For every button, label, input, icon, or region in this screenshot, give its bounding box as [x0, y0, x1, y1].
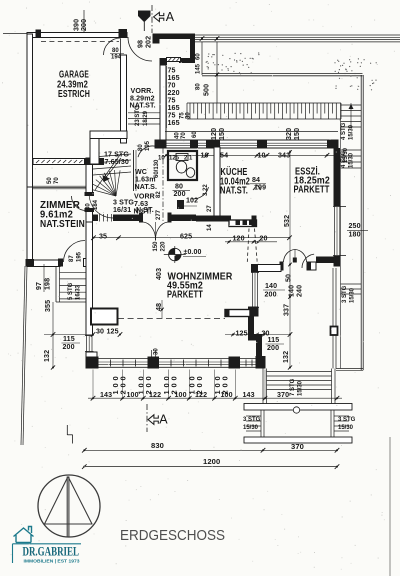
svg-text:500: 500	[203, 84, 211, 96]
lower side steps right	[334, 415, 349, 417]
hall west wall junction	[84, 158, 104, 165]
zimmer south door jamb left	[58, 259, 63, 267]
svg-text:125: 125	[236, 330, 248, 338]
svg-text:195: 195	[145, 140, 151, 151]
svg-text:830: 830	[151, 441, 164, 450]
entry wall stub left of sill	[160, 58, 168, 65]
south dimension line	[88, 397, 342, 399]
svg-text:17.65/30: 17.65/30	[101, 158, 129, 166]
dim column tick line	[166, 66, 168, 128]
east stairs second flight	[341, 149, 362, 151]
svg-text:N.ST.: N.ST.	[136, 206, 154, 214]
svg-text:180: 180	[349, 231, 361, 239]
living room north wall mid segment	[113, 215, 141, 222]
svg-text:320: 320	[285, 128, 293, 140]
south band pier 2	[148, 357, 160, 369]
svg-text:16/33: 16/33	[76, 284, 82, 300]
svg-text:30: 30	[96, 328, 104, 336]
svg-text:102: 102	[186, 197, 198, 205]
svg-text:150: 150	[218, 128, 226, 140]
svg-text:20: 20	[260, 235, 268, 243]
svg-text:15/30: 15/30	[350, 287, 356, 303]
svg-text:50: 50	[47, 177, 53, 184]
west dim line horizontal y334	[44, 334, 93, 336]
entry door sill	[167, 58, 181, 62]
double door jamb left	[139, 213, 143, 223]
svg-text:198: 198	[44, 278, 52, 290]
svg-text:145: 145	[196, 63, 202, 74]
svg-text:277: 277	[156, 209, 162, 220]
living east wall lower	[256, 341, 262, 359]
svg-text:35: 35	[99, 233, 107, 241]
kitchen door swing dashed lines	[247, 229, 249, 263]
east garden wall double line	[332, 268, 334, 369]
garage north wall pier left	[36, 30, 42, 38]
svg-text:60: 60	[192, 131, 198, 138]
vorraum door arc	[138, 146, 156, 157]
dining door arc	[302, 254, 314, 268]
svg-text:15/30: 15/30	[338, 425, 354, 431]
svg-text:132: 132	[282, 351, 290, 363]
svg-text:143: 143	[100, 391, 112, 399]
svg-text:202: 202	[145, 36, 153, 48]
terrace bottom bar	[244, 437, 352, 443]
svg-text:23 STG: 23 STG	[135, 105, 141, 126]
south window band	[93, 357, 265, 359]
wc cistern	[176, 154, 188, 161]
living room east wall upper	[252, 265, 259, 273]
hatched strip north terrace	[187, 103, 341, 119]
svg-text:A: A	[159, 413, 168, 427]
east terrace inner line	[340, 103, 342, 369]
svg-text:200: 200	[63, 343, 75, 351]
zimmer east wall lower	[86, 211, 93, 222]
svg-text:NAT.ST.: NAT.ST.	[220, 186, 248, 197]
svg-text:ESTRICH: ESTRICH	[58, 89, 90, 100]
zimmer east wall / hall west wall	[86, 158, 93, 194]
living room south-west corner	[86, 352, 97, 368]
svg-text:IMMOBILIEN | EST 1973: IMMOBILIEN | EST 1973	[24, 559, 80, 565]
svg-text:165: 165	[168, 119, 180, 127]
dining south wall	[316, 257, 340, 264]
north wall pier 3 (kitchen/dining)	[257, 140, 267, 149]
svg-text:115: 115	[63, 335, 75, 343]
svg-text:98: 98	[137, 40, 145, 48]
zimmer door 87/195 arc	[64, 241, 86, 263]
wc west partition	[133, 150, 135, 191]
zimmer west wall	[27, 187, 33, 266]
short vertical x202	[201, 42, 203, 75]
svg-text:16/31: 16/31	[113, 206, 131, 214]
svg-text:ERDGESCHOSS: ERDGESCHOSS	[120, 527, 225, 544]
logo circle	[38, 475, 100, 537]
tick on street line x217	[215, 36, 220, 41]
landing circle marker	[293, 407, 299, 413]
double door arcs 150/220	[143, 222, 156, 241]
vorraum stair treads	[128, 112, 160, 114]
north wall pier 2a (wc east)	[190, 140, 198, 149]
west wall window	[86, 335, 88, 352]
french door arcs	[284, 250, 296, 263]
scan speckle noise	[94, 311, 97, 314]
north wall pier 2 (kitchen west)	[206, 140, 220, 149]
dining south wall inner stub	[311, 262, 317, 270]
recess wall corner	[248, 307, 259, 317]
svg-text:3 STG: 3 STG	[342, 285, 348, 303]
section line middle (dash-dot)	[162, 148, 164, 222]
zimmer south door jamb right	[84, 259, 89, 267]
dim line west x44	[43, 264, 45, 292]
svg-text:403: 403	[155, 268, 163, 280]
svg-text:40: 40	[175, 132, 181, 139]
svg-text:70: 70	[54, 177, 60, 184]
north wall pier 1 (vorraum corner)	[155, 140, 167, 149]
section arrow filled top	[138, 11, 151, 23]
east garden wall post	[331, 327, 338, 336]
svg-text:7 STG: 7 STG	[290, 378, 296, 396]
kitchen wall end post	[252, 216, 257, 228]
north window sill line	[165, 131, 338, 133]
svg-text:200: 200	[174, 190, 186, 198]
svg-text:140: 140	[288, 285, 296, 297]
garage side door arc 80/194	[104, 38, 121, 55]
svg-text:125: 125	[107, 328, 119, 336]
svg-text:100: 100	[221, 391, 233, 399]
porch bottom wall	[179, 58, 190, 63]
svg-text:150: 150	[153, 241, 159, 252]
terrace stair rails	[262, 369, 264, 404]
terrace stair treads	[267, 371, 332, 373]
section arrow open top	[154, 12, 164, 21]
pier2 stub above	[151, 350, 153, 357]
svg-text:14: 14	[207, 224, 213, 231]
north street multi-line	[195, 34, 400, 36]
vorraum east wall	[160, 65, 166, 148]
zimmer door arc	[72, 196, 87, 211]
svg-text:30: 30	[186, 112, 192, 119]
svg-text:27: 27	[207, 205, 213, 212]
west exterior stair treads	[60, 271, 87, 273]
svg-text:370: 370	[277, 391, 289, 399]
terrace landing bar	[244, 404, 352, 411]
svg-text:97: 97	[35, 282, 43, 290]
kitchen wall heater marks	[236, 220, 241, 226]
svg-text:70: 70	[181, 132, 187, 139]
living east wall mid	[248, 317, 254, 337]
french door jamb left	[280, 262, 284, 271]
svg-text:A: A	[166, 10, 175, 24]
svg-text:120: 120	[210, 128, 218, 140]
garage west wall	[27, 34, 33, 187]
entry door arc 98/202	[128, 37, 152, 61]
porch left corner	[153, 34, 160, 44]
dining east window	[334, 206, 336, 256]
garage north wall pier right	[119, 29, 128, 37]
svg-text:NAT.STEIN: NAT.STEIN	[40, 219, 85, 230]
zimmer south wall west segment	[27, 260, 60, 267]
svg-text:195: 195	[77, 251, 83, 262]
svg-text:NAT.S.: NAT.S.	[135, 183, 158, 191]
west property line (slanted)	[21, 266, 25, 445]
wall between living and french doors	[252, 265, 282, 272]
elevation marker +-0.00	[169, 248, 181, 260]
svg-text:4 STG: 4 STG	[341, 122, 347, 140]
svg-text:60/130: 60/130	[154, 159, 160, 178]
north wall pier 4 (dining east corner)	[327, 140, 339, 149]
south band pier west corner	[86, 357, 99, 369]
double door jamb right	[168, 213, 172, 223]
porch top wall	[153, 34, 196, 40]
pillar 102 black post	[177, 200, 184, 209]
wc door arc	[192, 187, 209, 199]
living east window	[252, 272, 254, 308]
north wall band outline	[155, 140, 338, 148]
south dimension extension lines	[92, 370, 94, 399]
svg-text:60: 60	[196, 53, 202, 60]
east stairs mid flight	[341, 283, 362, 285]
east terrace bottom edge	[336, 368, 363, 370]
svg-text:150: 150	[293, 128, 301, 140]
logo triangle	[44, 477, 93, 525]
svg-text:PARKETT: PARKETT	[167, 290, 203, 301]
east dim vertical line	[289, 150, 291, 368]
porch right wall	[190, 39, 195, 63]
recess wall horizontal	[225, 310, 250, 317]
kitchen south wall lower step	[229, 220, 257, 227]
svg-text:15/30: 15/30	[298, 380, 304, 396]
living south-east corner	[256, 356, 266, 369]
south band mullions	[110, 360, 112, 367]
svg-text:±0.00: ±0.00	[184, 249, 202, 256]
dining east wall upper	[334, 148, 341, 206]
wc toilet bowl	[176, 161, 186, 173]
svg-text:250: 250	[349, 222, 361, 230]
svg-text:200: 200	[80, 19, 88, 31]
svg-text:143: 143	[243, 391, 255, 399]
svg-text:80: 80	[196, 83, 202, 90]
north boundary line left of garage	[3, 33, 30, 35]
svg-text:355: 355	[44, 300, 52, 312]
kitchen south wall upper	[196, 216, 231, 222]
svg-text:100: 100	[127, 391, 139, 399]
svg-text:199: 199	[254, 184, 266, 192]
garage east wall	[121, 55, 127, 143]
section line A top	[151, 5, 153, 33]
garage door sill hatched	[33, 159, 85, 165]
svg-text:120: 120	[233, 235, 245, 243]
svg-text:15/30: 15/30	[349, 152, 355, 168]
3 step treads in wall opening	[99, 214, 101, 222]
svg-text:82: 82	[156, 191, 162, 198]
garage north wall	[27, 33, 127, 38]
stipple dots cluster 1	[222, 55, 223, 56]
svg-text:140: 140	[265, 282, 277, 290]
right margin scan line	[389, 437, 391, 576]
zimmer south-west corner	[26, 259, 35, 267]
vorraum lower wall to garage	[90, 131, 127, 139]
logo house icon	[14, 527, 34, 543]
tick on street line x202	[200, 36, 205, 41]
svg-text:1200: 1200	[203, 457, 220, 466]
logo teal rule	[13, 543, 82, 545]
svg-text:3.22: 3.22	[203, 184, 209, 196]
winder stair fan	[89, 152, 131, 218]
dim line 1200	[84, 466, 337, 468]
window glazing lines kitchen band	[166, 142, 338, 144]
svg-text:200: 200	[265, 291, 277, 299]
section arrow open bottom	[148, 415, 158, 425]
south-west stepped boundary mark	[66, 425, 68, 435]
east stairs upper flight	[341, 104, 362, 106]
west dim vertical line	[52, 302, 54, 368]
svg-text:3 STG: 3 STG	[243, 417, 261, 423]
svg-text:625: 625	[180, 233, 192, 241]
dim 390/200 rotated top-left	[83, 10, 85, 33]
zimmer north wall thin	[33, 185, 86, 187]
svg-text:240: 240	[296, 285, 304, 297]
svg-text:NAT.ST.: NAT.ST.	[130, 102, 156, 110]
svg-text:15/30: 15/30	[243, 425, 259, 431]
svg-text:PARKETT: PARKETT	[294, 185, 330, 196]
line below garage sill	[30, 187, 86, 189]
wc sink	[186, 168, 194, 178]
zimmer door jambs	[85, 192, 95, 196]
kitchen west wall	[214, 147, 220, 219]
zimmer south wall east corner	[84, 259, 93, 267]
lower side steps left	[246, 415, 261, 417]
svg-text:132: 132	[43, 350, 51, 362]
svg-text:30: 30	[154, 348, 160, 355]
svg-text:122: 122	[149, 391, 161, 399]
svg-text:50: 50	[285, 274, 293, 282]
svg-text:4 STG: 4 STG	[341, 150, 347, 168]
south band pier 3	[229, 357, 241, 369]
retaining wall line north-east	[202, 73, 363, 75]
garage door track dashed	[41, 41, 119, 43]
dim line y237 with ticks	[93, 237, 290, 239]
svg-text:3 STG: 3 STG	[338, 417, 356, 423]
svg-text:100: 100	[175, 391, 187, 399]
dim line 830	[84, 449, 337, 451]
living room north wall west segment	[89, 215, 98, 222]
svg-text:194: 194	[111, 55, 122, 61]
logo vertical mast	[66, 477, 68, 537]
svg-text:337: 337	[283, 304, 291, 316]
svg-text:5 STG: 5 STG	[68, 282, 74, 300]
french door jamb right	[307, 262, 311, 271]
chimney bump	[91, 309, 118, 325]
svg-text:115: 115	[268, 336, 280, 344]
west exterior stair rails	[55, 266, 57, 302]
living room west wall	[86, 222, 93, 335]
dashed beam line	[118, 318, 225, 320]
wc room box	[168, 151, 197, 180]
svg-text:87: 87	[69, 255, 75, 262]
svg-text:18/29: 18/29	[143, 110, 149, 126]
vertical dim line x217 (500)	[216, 42, 218, 103]
living room north wall east segment	[172, 215, 197, 222]
svg-text:200: 200	[267, 344, 279, 352]
east site edge double line	[360, 75, 362, 370]
living east wall jog	[248, 334, 262, 341]
stair walk line arrow	[104, 158, 121, 180]
dim line 120/20 kitchen door	[225, 241, 277, 243]
stipple dots cluster 2	[340, 65, 341, 66]
svg-text:15/30: 15/30	[349, 124, 355, 140]
section line A bottom	[146, 404, 148, 432]
svg-text:80: 80	[138, 144, 144, 151]
svg-text:122: 122	[195, 391, 207, 399]
svg-text:DR.GABRIEL: DR.GABRIEL	[23, 544, 80, 559]
svg-text:220: 220	[161, 241, 167, 252]
